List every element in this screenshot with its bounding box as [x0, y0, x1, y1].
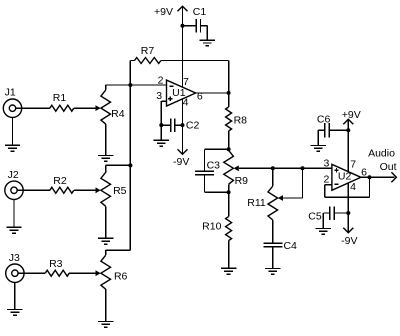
pin 7 label U1: [183, 76, 189, 88]
potentiometer R4: [101, 85, 125, 155]
wire summing node to U1 pin 2: [106, 84, 167, 86]
junction dot R11 top: [271, 166, 275, 170]
potentiometer R11: [247, 168, 277, 243]
svg-text:R9: R9: [235, 175, 249, 187]
junction dot U2 output: [368, 175, 372, 179]
svg-text:C2: C2: [186, 120, 200, 132]
svg-text:R4: R4: [111, 108, 125, 120]
pin 4 label U1: [183, 97, 189, 109]
label Audio Out: [368, 148, 397, 174]
svg-text:R11: R11: [247, 197, 266, 209]
wire summing bus: [106, 85, 131, 255]
svg-text:R5: R5: [113, 185, 127, 197]
wire U2 output: [361, 176, 370, 178]
svg-text:R10: R10: [202, 221, 221, 233]
wire R2 to R5 wiper: [74, 189, 96, 191]
svg-text:C4: C4: [283, 240, 297, 252]
capacitor C4: [263, 240, 297, 268]
wiper arrow R9: [234, 165, 239, 171]
power -9V arrow (U1): [173, 149, 189, 168]
pin 6 label U2: [361, 167, 367, 179]
svg-text:3: 3: [323, 158, 329, 170]
ground C5: [316, 229, 331, 235]
svg-text:R8: R8: [234, 115, 248, 127]
op-amp U2: [332, 164, 361, 190]
ground J2: [6, 200, 21, 234]
wire R9 wiper to U2 pin 3: [239, 167, 332, 169]
wire J3 to R3: [18, 272, 45, 274]
wire +9V to U1 pin 7: [182, 26, 184, 87]
wire node to C3: [205, 148, 229, 150]
svg-text:+9V: +9V: [154, 6, 173, 18]
svg-text:C5: C5: [308, 210, 322, 222]
resistor R3: [45, 258, 69, 276]
wire U1 pin 3 to C2: [161, 101, 166, 125]
junction dot +9V node: [181, 24, 185, 28]
pin 7 label U2: [350, 159, 356, 171]
potentiometer R6: [101, 250, 128, 321]
svg-text:4: 4: [183, 97, 189, 109]
svg-text:J2: J2: [8, 169, 19, 181]
wire R5 top to bus: [106, 164, 131, 166]
wire +9V node to C1: [183, 25, 197, 27]
op-amp U1: [167, 80, 196, 106]
svg-text:4: 4: [350, 181, 356, 193]
power +9V supply arrow (U1): [154, 6, 187, 26]
ground J1: [5, 117, 20, 151]
svg-text:-9V: -9V: [341, 235, 357, 247]
ground C1: [200, 40, 215, 46]
svg-text:R2: R2: [53, 175, 67, 187]
wire C1 to ground: [201, 26, 208, 40]
pin 3 label U1: [156, 90, 162, 102]
junction dot U1 output: [227, 91, 231, 95]
junction dot R9 bottom: [227, 190, 231, 194]
wiper arrow R4: [96, 105, 101, 111]
svg-text:7: 7: [350, 159, 356, 171]
wiper arrow R5: [96, 187, 101, 193]
wire +9V to U2 pin 7: [347, 130, 349, 172]
svg-text:2: 2: [158, 74, 164, 86]
connector J2: [5, 169, 23, 200]
wiper arrow R11: [278, 195, 283, 201]
ground C2: [154, 125, 169, 146]
svg-text:R1: R1: [53, 92, 67, 104]
wire U2 feedback: [325, 177, 370, 197]
potentiometer R9: [224, 150, 248, 192]
ground R10: [221, 268, 236, 274]
wire J2 to R2: [17, 189, 50, 191]
ground R5: [98, 238, 113, 244]
wire R1 to R4 wiper: [74, 107, 96, 109]
junction dot C2 right: [181, 123, 185, 127]
svg-text:J1: J1: [5, 87, 16, 99]
svg-text:Audio: Audio: [368, 148, 395, 160]
pin 4 label U2: [350, 181, 356, 193]
wire R11 wiper: [283, 168, 303, 198]
junction dot U2 +9V: [346, 128, 350, 132]
potentiometer R5: [101, 165, 127, 238]
svg-text:C3: C3: [207, 159, 221, 171]
wire U1 pin 4 to -9V: [182, 99, 184, 154]
svg-text:3: 3: [156, 90, 162, 102]
svg-text:R6: R6: [114, 271, 128, 283]
connector J3: [6, 252, 24, 282]
pin 2 label U2: [323, 173, 329, 185]
capacitor C6: [317, 114, 348, 146]
capacitor C1: [193, 6, 207, 32]
svg-text:C1: C1: [193, 6, 207, 18]
wiper arrow R6: [96, 270, 101, 276]
connector J1: [3, 87, 21, 118]
svg-text:R3: R3: [49, 258, 63, 270]
wire U2 pin 4 to -9V: [347, 183, 349, 232]
capacitor C3: [195, 149, 220, 192]
capacitor C2: [161, 118, 199, 132]
capacitor C5: [308, 206, 348, 228]
wire U1 output: [196, 92, 229, 94]
resistor R7: [130, 45, 228, 64]
ground R6: [98, 322, 113, 328]
pin 6 label U1: [197, 91, 203, 103]
svg-text:Out: Out: [380, 161, 397, 173]
ground C4: [265, 269, 280, 275]
svg-text:R7: R7: [141, 45, 155, 57]
ground C6: [311, 146, 326, 152]
junction dot C2 left: [159, 123, 163, 127]
wire R7 right to U1 output: [228, 61, 230, 93]
svg-text:7: 7: [183, 76, 189, 88]
svg-text:2: 2: [323, 173, 329, 185]
junction dot R11 wiper node: [301, 166, 305, 170]
resistor R8: [226, 93, 248, 149]
svg-text:J3: J3: [9, 252, 20, 264]
resistor R2: [50, 175, 74, 193]
wire J1 to R1: [16, 107, 50, 109]
junction dot C5 node: [346, 211, 350, 215]
junction dot R8 bottom: [227, 147, 231, 151]
wire R3 to R6 wiper: [69, 272, 96, 274]
power -9V arrow (U2): [341, 228, 357, 247]
wire R7 left to summing node: [129, 61, 131, 86]
power +9V supply arrow (U2): [342, 109, 361, 130]
resistor R1: [50, 92, 74, 111]
svg-text:+9V: +9V: [342, 109, 361, 121]
svg-text:-9V: -9V: [173, 156, 189, 168]
ground J3: [7, 282, 22, 315]
resistor R10: [202, 192, 231, 268]
junction dot bus R5: [128, 163, 132, 167]
junction dot summing node: [128, 83, 132, 87]
pin 2 label U1: [158, 74, 164, 86]
pin 3 label U2: [323, 158, 329, 170]
wire C3 to node: [205, 191, 229, 193]
audio out arrow: [370, 172, 397, 182]
ground R4: [98, 156, 113, 162]
